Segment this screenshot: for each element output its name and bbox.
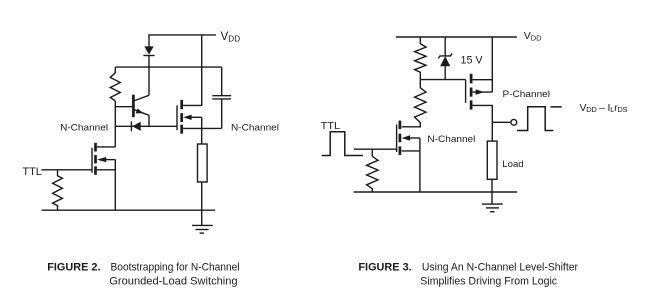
wire load to ground rail (201, 182, 203, 225)
mosfet M4 P-channel gate (465, 80, 467, 103)
svg-text:Load: Load (502, 159, 523, 170)
resistor R7 load box (fig3) (487, 141, 497, 179)
wire VDD rail (fig2) (148, 34, 216, 36)
mosfet M3 body arrow (402, 135, 420, 140)
mosfet M3 body bar (399, 134, 402, 143)
wire M4 source to VDD (473, 37, 493, 80)
wire C1 bottom to source (221, 99, 223, 128)
mosfet M1 body arrow (97, 157, 115, 162)
diode D1 (143, 46, 154, 55)
mosfet M3 drain bar (399, 121, 402, 130)
svg-text:FIGURE 3. Using An N-Channel: FIGURE 3. Using An N-Channel Level-Shift… (358, 261, 578, 273)
ground symbol (fig3) (482, 204, 503, 212)
mosfet M3 source bar (399, 146, 402, 155)
wire NPN base (115, 106, 132, 108)
mosfet M2 gate (176, 105, 178, 130)
mosfet M2 body arrow (183, 115, 202, 120)
mosfet M4 drain bar (470, 100, 473, 109)
svg-text:N-Channel: N-Channel (231, 122, 279, 133)
mosfet M1 source bar (94, 166, 97, 175)
mosfet M1 body bar (94, 155, 97, 163)
resistor R4 (upper divider) (415, 37, 426, 80)
wire M1 source (97, 169, 115, 171)
svg-text:TTL: TTL (22, 166, 42, 178)
transistor Q1 NPN base bar (132, 95, 135, 118)
svg-text:Grounded-Load Switching: Grounded-Load Switching (109, 276, 237, 288)
wire bootstrap node horizontal (115, 66, 221, 68)
svg-text:TTL: TTL (321, 121, 341, 132)
mosfet M4 body bar (470, 88, 473, 97)
wire R1 bottom to lower FET drain (114, 101, 116, 147)
svg-text:P-Channel: P-Channel (503, 89, 551, 100)
capacitor C1 top wire (221, 67, 223, 96)
mosfet M4 source bar (470, 74, 473, 84)
wire load to ground (fig3) (491, 179, 493, 204)
resistor R5 (lower divider) (402, 80, 426, 127)
wire M2 source to cap (183, 127, 222, 129)
wire gate line (diode wire) to M2 gate (115, 125, 177, 127)
wire VDD rail (fig3) (396, 36, 517, 38)
capacitor C1 (212, 96, 231, 99)
mosfet M4 body arrow (P-channel) (473, 89, 493, 94)
mosfet M1 drain bar (94, 143, 97, 152)
wire M3 source (402, 150, 420, 152)
wire gate junction horizontal (420, 79, 465, 81)
resistor R3 load box (198, 144, 208, 182)
wire ground rail (fig3) (354, 191, 517, 193)
diode D2 (gate clamp, pointing left) (131, 121, 140, 131)
wire Q1 emitter to gate wire (148, 115, 150, 126)
waveform TTL input pulse (322, 132, 363, 156)
svg-text:N-Channel: N-Channel (60, 122, 108, 133)
mosfet M1 gate (91, 148, 93, 173)
diode D1 anode wire (148, 35, 150, 47)
waveform output high-level dash (550, 106, 561, 108)
waveform output pulse (517, 107, 553, 131)
node output circle (511, 119, 517, 125)
wire ground rail (fig2) (42, 209, 216, 211)
svg-text:Simplifies Driving From Logic: Simplifies Driving From Logic (420, 276, 557, 288)
mosfet M3 gate (396, 124, 398, 152)
wire TTL input (41, 169, 92, 171)
zener diode DZ anode wire (444, 37, 446, 56)
wire M2 body down to load (201, 117, 203, 144)
wire M1 body/source to ground (114, 160, 116, 211)
mosfet M2 source bar (180, 125, 183, 134)
mosfet M2 drain bar (180, 100, 183, 109)
wire M3 body/source to ground (419, 138, 421, 192)
ground symbol (fig2) (192, 225, 213, 233)
svg-text:N-Channel: N-Channel (427, 134, 475, 145)
resistor R1 (bootstrap pull-up) (110, 67, 120, 101)
resistor R2 (TTL pulldown) (53, 170, 63, 210)
wire M2 drain to VDD (183, 35, 202, 106)
wire M3 gate input (354, 148, 397, 150)
transistor Q1 collector (135, 95, 150, 100)
wire M1 drain up to gate line (97, 146, 115, 148)
wire output stub (492, 121, 510, 123)
mosfet M2 body bar (180, 113, 183, 122)
wire M4 body to source (491, 80, 493, 92)
resistor R6 (gate pulldown) (367, 149, 378, 192)
wire M4 drain to load (473, 105, 493, 141)
wire D1 cathode to NPN collector (148, 56, 150, 96)
zener diode DZ 15V (438, 53, 452, 79)
svg-text:15 V: 15 V (461, 54, 484, 66)
svg-text:FIGURE 2. Bootstrapping for N: FIGURE 2. Bootstrapping for N-Channel (47, 261, 239, 273)
transistor Q1 emitter (135, 108, 150, 115)
